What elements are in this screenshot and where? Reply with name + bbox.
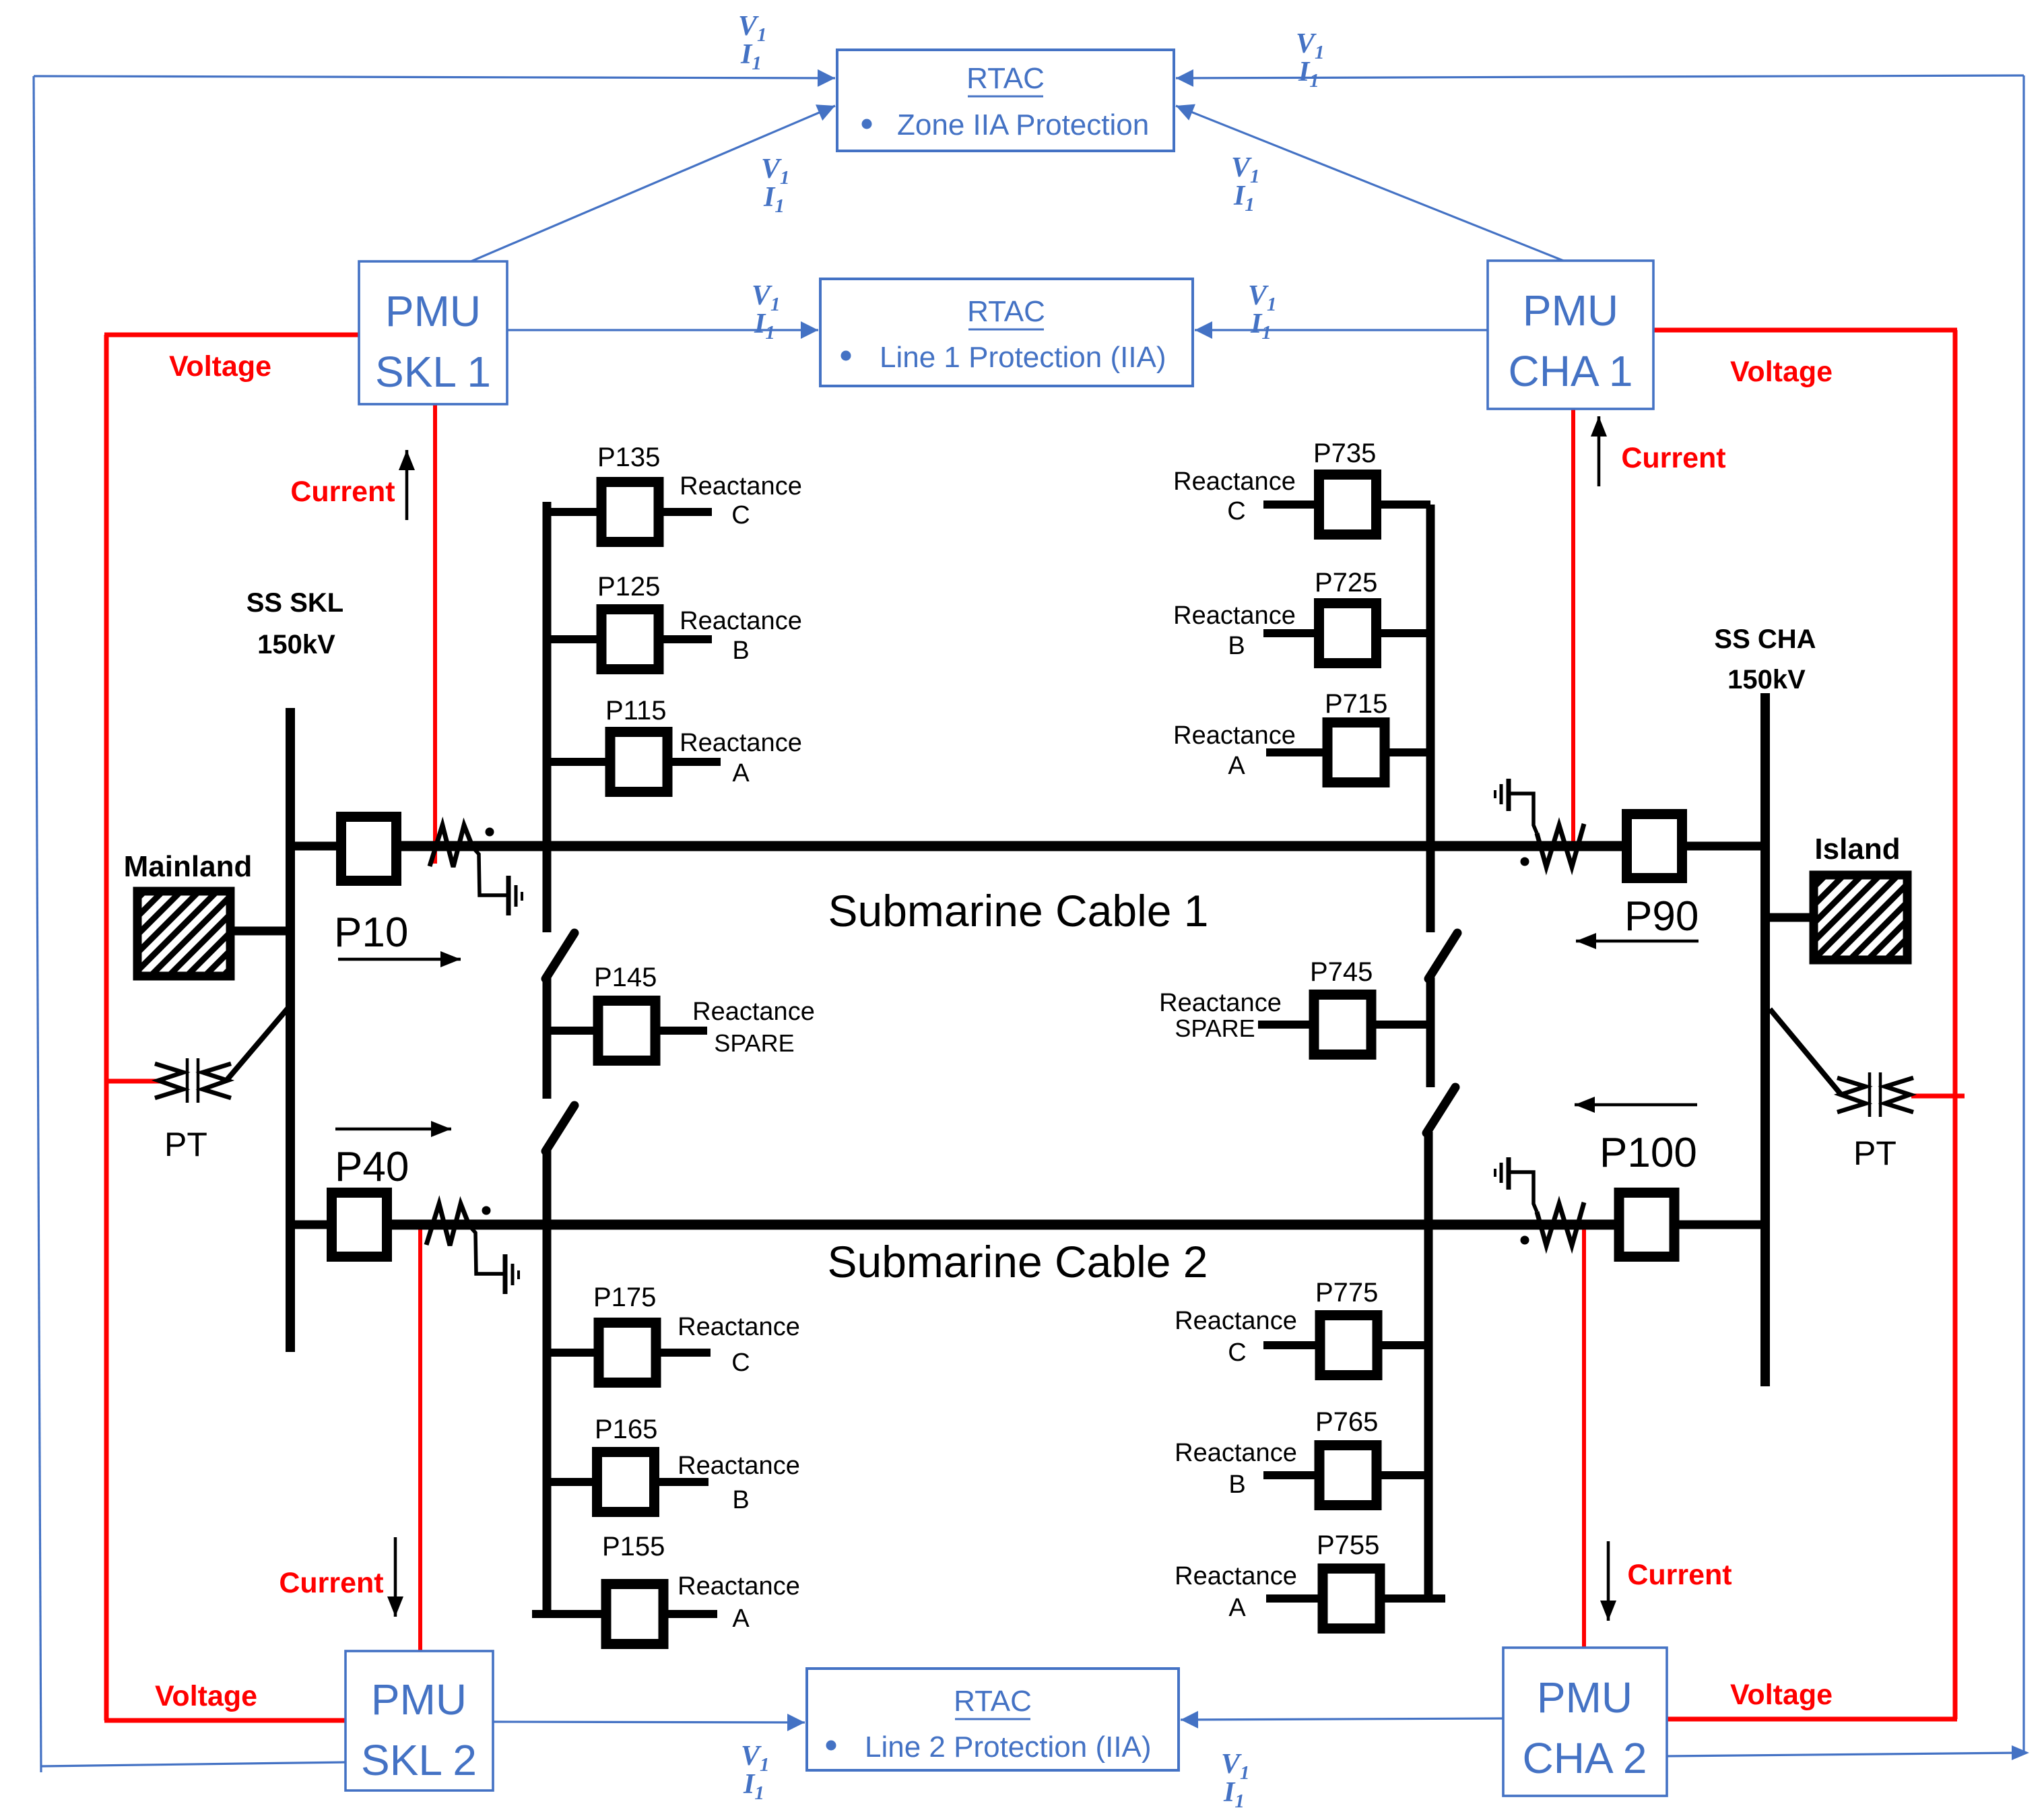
- wire Mainland to bus: [230, 927, 290, 936]
- reactor breaker P725: [1319, 604, 1377, 664]
- wire stub to P125: [547, 635, 603, 643]
- PT voltage transformer left: [155, 1064, 183, 1098]
- wire stub P735 to vertical: [1375, 501, 1430, 509]
- wire PMU CHA 2 to blue frame right vertical: [1667, 1753, 2022, 1756]
- svg-text:Submarine Cable 2: Submarine Cable 2: [828, 1237, 1208, 1287]
- RTAC Zone IIA Protection controller: [837, 50, 1174, 151]
- wire right PT to bus diagonal: [1770, 1009, 1841, 1094]
- wire submarine cable 1: [397, 841, 1626, 851]
- svg-text:CHA 2: CHA 2: [1523, 1734, 1647, 1782]
- wire right reactor branch vertical lower (through cable 2): [1424, 1132, 1433, 1599]
- wire stub from Reactance C to P735: [1263, 501, 1320, 509]
- reactor breaker P135: [601, 482, 659, 542]
- breaker P100: [1619, 1193, 1674, 1257]
- wire red current PMU CHA 2 to CT: [1582, 1221, 1586, 1648]
- wire stub to P145: [547, 1027, 598, 1035]
- svg-text:Line 1 Protection (IIA): Line 1 Protection (IIA): [880, 341, 1166, 374]
- wire red current PMU SKL 2 to CT: [418, 1229, 422, 1651]
- svg-text:Mainland: Mainland: [124, 850, 253, 883]
- wire right reactor branch vertical upper (cable 1): [1426, 505, 1435, 932]
- svg-text:SKL 2: SKL 2: [361, 1736, 477, 1784]
- wire stub P765 to vertical: [1375, 1471, 1428, 1479]
- wire breaker P90 to bus: [1683, 842, 1765, 851]
- svg-text:P90: P90: [1624, 893, 1699, 940]
- wire stub from Reactance C to P775: [1263, 1341, 1322, 1349]
- RTAC Line 1 Protection controller: [820, 279, 1193, 386]
- svg-text:Reactance: Reactance: [680, 729, 802, 757]
- reactor breaker P155: [606, 1584, 663, 1644]
- wire PMU CHA 1 to RTAC Line 1 Protection: [1195, 329, 1488, 331]
- wire stub to P155: [532, 1610, 607, 1618]
- svg-text:150kV: 150kV: [1727, 665, 1806, 695]
- wire left reactor branch vertical lower (through cable 2): [543, 1150, 552, 1614]
- svg-text:A: A: [732, 759, 750, 787]
- wire stub from P165 to Reactance B: [654, 1478, 708, 1486]
- svg-text:Reactance: Reactance: [1173, 721, 1296, 750]
- PMU SKL 1: [359, 261, 507, 404]
- svg-text:P725: P725: [1315, 568, 1377, 598]
- svg-text:P165: P165: [595, 1415, 657, 1444]
- wire left PT to bus diagonal: [227, 1008, 288, 1080]
- svg-text:Current: Current: [1627, 1559, 1732, 1591]
- svg-text:C: C: [731, 501, 750, 529]
- arrow power flow P90: [1576, 940, 1699, 943]
- busbar SS CHA 150kV: [1760, 693, 1770, 1386]
- wire red current PMU CHA 1 to CT: [1571, 409, 1575, 842]
- svg-text:P115: P115: [605, 696, 666, 725]
- wire blue frame left vertical (PMU SKL 2 to RTAC Zone IIA path): [34, 76, 41, 1772]
- wire red tap to left PT: [106, 1079, 162, 1084]
- wire stub P725 to vertical: [1374, 629, 1430, 637]
- svg-text:Reactance: Reactance: [1175, 1562, 1297, 1590]
- svg-text:B: B: [1228, 632, 1245, 660]
- svg-text:B: B: [1228, 1471, 1245, 1499]
- CT with earthing on cable 2 SKL side: [426, 1204, 469, 1246]
- svg-text:P155: P155: [602, 1532, 665, 1561]
- wire red voltage PMU CHA 1: [1653, 328, 1957, 333]
- wire stub from P135 to Reactance C: [658, 508, 712, 516]
- wire red voltage PMU SKL 2: [104, 1718, 345, 1723]
- Island equivalent source: [1814, 875, 1907, 960]
- wire blue frame bottom-left horizontal to PMU SKL 2: [41, 1762, 348, 1766]
- svg-text:RTAC: RTAC: [967, 295, 1045, 328]
- svg-text:Reactance: Reactance: [1173, 467, 1296, 496]
- svg-text:P745: P745: [1310, 957, 1373, 987]
- svg-text:Island: Island: [1814, 833, 1900, 866]
- svg-text:A: A: [1228, 1594, 1246, 1622]
- svg-text:Current: Current: [279, 1567, 383, 1599]
- wire stub from P145 to Reactance SPARE: [655, 1027, 707, 1035]
- svg-text:PMU: PMU: [1523, 286, 1618, 335]
- wire stub P775 to vertical: [1376, 1341, 1428, 1349]
- svg-text:B: B: [732, 1486, 749, 1514]
- wire stub from Reactance B to P765: [1263, 1471, 1321, 1479]
- svg-text:Reactance: Reactance: [680, 607, 802, 635]
- svg-text:Zone IIA Protection: Zone IIA Protection: [897, 108, 1149, 141]
- svg-text:P145: P145: [594, 963, 657, 992]
- reactor breaker P775: [1320, 1316, 1377, 1376]
- Mainland equivalent source: [137, 891, 230, 976]
- breaker P10: [341, 817, 397, 881]
- svg-text:A: A: [732, 1605, 750, 1633]
- wire right reactor branch vertical middle: [1426, 977, 1435, 1087]
- breaker P40: [332, 1193, 387, 1257]
- svg-text:Reactance: Reactance: [1159, 989, 1282, 1017]
- svg-text:Voltage: Voltage: [155, 1680, 257, 1712]
- wire red tap from right PT: [1911, 1094, 1965, 1099]
- wire stub P745 to vertical: [1370, 1021, 1430, 1029]
- svg-text:SPARE: SPARE: [1175, 1014, 1255, 1042]
- svg-text:SKL 1: SKL 1: [375, 348, 491, 396]
- svg-text:SS CHA: SS CHA: [1714, 624, 1816, 654]
- arrow current up near PMU SKL 1: [405, 450, 409, 520]
- wire stub from P155 to Reactance A: [663, 1610, 717, 1618]
- arrow current down near PMU SKL 2: [394, 1537, 397, 1617]
- wire red voltage PMU CHA 2: [1667, 1717, 1957, 1722]
- wire stub from P125 to Reactance B: [658, 635, 712, 643]
- svg-text:Reactance: Reactance: [1175, 1307, 1297, 1335]
- reactor breaker P735: [1319, 475, 1377, 535]
- PT voltage transformer right: [1837, 1078, 1866, 1112]
- svg-text:CHA 1: CHA 1: [1509, 347, 1633, 395]
- svg-text:P755: P755: [1317, 1530, 1379, 1560]
- svg-text:PMU: PMU: [371, 1675, 467, 1724]
- arrow power flow P40: [335, 1128, 451, 1131]
- svg-text:P175: P175: [593, 1283, 656, 1312]
- wire stub to P115: [547, 758, 611, 766]
- reactor breaker P765: [1319, 1446, 1377, 1506]
- svg-text:PMU: PMU: [385, 287, 481, 335]
- svg-text:P135: P135: [597, 443, 660, 472]
- svg-text:C: C: [1228, 1338, 1246, 1367]
- wire stub from P175 to Reactance C: [656, 1349, 711, 1357]
- svg-text:P765: P765: [1315, 1407, 1378, 1437]
- reactor breaker P125: [601, 610, 659, 670]
- wire red voltage bus left vertical: [104, 335, 109, 1720]
- arrow power flow P100: [1575, 1103, 1697, 1107]
- wire stub from Reactance A to P755: [1266, 1594, 1323, 1603]
- svg-text:Reactance: Reactance: [678, 1572, 800, 1601]
- wire breaker P100 to bus: [1676, 1221, 1765, 1229]
- CT with earthing on cable 1 SKL side: [430, 825, 473, 867]
- reactor breaker P755: [1323, 1569, 1380, 1629]
- wire bus to Island: [1765, 913, 1814, 922]
- svg-text:Reactance: Reactance: [1175, 1439, 1297, 1467]
- disconnector blade right cable 2: [1426, 1087, 1455, 1133]
- busbar SS SKL 150kV: [286, 708, 295, 1352]
- reactor breaker P175: [599, 1323, 656, 1383]
- svg-text:P775: P775: [1315, 1278, 1378, 1307]
- disconnector blade right cable 1: [1428, 933, 1457, 979]
- reactor breaker P715: [1327, 723, 1385, 783]
- wire stub to P175: [547, 1349, 599, 1357]
- svg-text:SS SKL: SS SKL: [246, 588, 343, 618]
- wire red voltage bus right vertical: [1953, 330, 1958, 1719]
- wire stub P715 to vertical: [1383, 748, 1430, 756]
- svg-text:Voltage: Voltage: [1730, 1679, 1833, 1711]
- disconnector blade left cable 2: [546, 1105, 574, 1151]
- PMU CHA 1: [1488, 261, 1653, 409]
- wire blue frame top-left horizontal into RTAC Zone IIA: [34, 76, 835, 78]
- reactor breaker P145 (spare): [598, 1001, 655, 1061]
- svg-text:A: A: [1228, 752, 1245, 780]
- svg-text:Reactance: Reactance: [692, 998, 815, 1026]
- svg-text:P715: P715: [1325, 689, 1387, 719]
- svg-text:RTAC: RTAC: [954, 1685, 1032, 1718]
- wire stub P755 to vertical: [1379, 1594, 1445, 1603]
- wire red voltage PMU SKL 1: [104, 333, 359, 337]
- wire PMU SKL 2 to RTAC Line 2 Protection: [493, 1722, 805, 1722]
- reactor breaker P165: [597, 1452, 655, 1512]
- CT with earthing on cable 1 CHA side: [1507, 779, 1511, 811]
- svg-text:P735: P735: [1313, 439, 1376, 468]
- wire stub from Reactance B to P725: [1263, 629, 1321, 637]
- svg-text:Reactance: Reactance: [678, 1452, 800, 1480]
- wire stub to P165: [547, 1478, 597, 1486]
- wire PMU SKL 1 to RTAC Line 1 Protection: [507, 329, 818, 331]
- CT with earthing on cable 2 CHA side: [1507, 1157, 1511, 1190]
- svg-text:P10: P10: [334, 909, 408, 956]
- svg-text:Voltage: Voltage: [169, 350, 271, 383]
- disconnector blade left cable 1: [546, 933, 574, 979]
- svg-text:P125: P125: [597, 572, 660, 602]
- svg-text:Reactance: Reactance: [680, 472, 802, 501]
- PMU SKL 2: [345, 1651, 493, 1790]
- wire PMU CHA 1 diagonal to RTAC Zone IIA: [1176, 106, 1565, 261]
- wire PMU CHA 2 to RTAC Line 2 Protection: [1181, 1718, 1503, 1720]
- wire left reactor branch vertical middle: [543, 977, 552, 1099]
- svg-text:SPARE: SPARE: [714, 1029, 794, 1057]
- wire bus to breaker P40: [290, 1221, 331, 1229]
- wire submarine cable 2: [388, 1220, 1617, 1230]
- svg-text:PMU: PMU: [1537, 1673, 1633, 1722]
- svg-text:C: C: [1227, 497, 1245, 525]
- svg-text:P100: P100: [1600, 1130, 1697, 1176]
- svg-text:Reactance: Reactance: [678, 1313, 800, 1341]
- svg-text:Current: Current: [290, 476, 395, 508]
- reactor breaker P115: [610, 732, 667, 792]
- svg-text:P40: P40: [335, 1144, 409, 1190]
- wire stub from Reactance A to P715: [1266, 748, 1329, 756]
- breaker P90: [1627, 814, 1682, 878]
- wire red current PMU SKL 1 to CT: [433, 404, 437, 864]
- svg-text:RTAC: RTAC: [966, 62, 1045, 95]
- wire bus to breaker P10: [290, 842, 341, 851]
- svg-text:Current: Current: [1621, 442, 1725, 474]
- arrow current up near PMU CHA 1: [1597, 416, 1601, 486]
- svg-text:B: B: [732, 637, 749, 665]
- svg-text:Voltage: Voltage: [1730, 356, 1833, 388]
- svg-text:C: C: [731, 1349, 750, 1377]
- svg-text:150kV: 150kV: [257, 630, 335, 659]
- wire stub from Reactance SPARE to P745: [1258, 1021, 1315, 1029]
- wire arrow at bottom-right frame corner: [2012, 1745, 2029, 1760]
- wire PMU SKL 1 diagonal to RTAC Zone IIA: [469, 106, 835, 262]
- PMU CHA 2: [1503, 1648, 1667, 1796]
- wire left reactor branch vertical upper (cable 1): [543, 502, 552, 932]
- reactor breaker P745 (spare): [1314, 995, 1371, 1055]
- wire blue frame top-right horizontal into RTAC Zone IIA: [1176, 75, 2024, 78]
- svg-text:PT: PT: [1853, 1134, 1897, 1172]
- svg-text:Line 2 Protection (IIA): Line 2 Protection (IIA): [865, 1731, 1152, 1764]
- wire blue frame right vertical: [2022, 75, 2024, 1753]
- wire stub from P115 to Reactance A: [667, 758, 721, 766]
- svg-text:PT: PT: [164, 1126, 207, 1163]
- wire stub to P135: [547, 508, 603, 516]
- arrow current down near PMU CHA 2: [1607, 1541, 1610, 1621]
- arrow power flow P10: [338, 958, 461, 961]
- svg-text:Submarine Cable 1: Submarine Cable 1: [828, 886, 1209, 936]
- svg-text:Reactance: Reactance: [1173, 602, 1296, 630]
- RTAC Line 2 Protection controller: [807, 1669, 1179, 1770]
